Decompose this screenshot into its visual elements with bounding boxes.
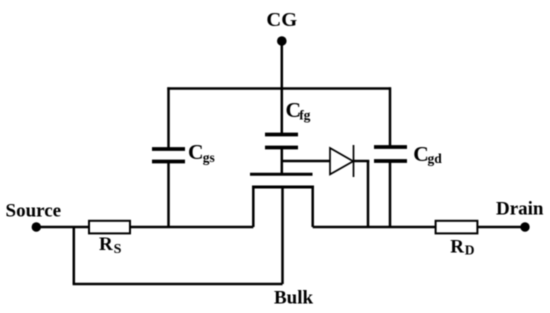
wire Cfg bottom plate to floating gate	[281, 148, 284, 175]
wire bulk drop vertical	[73, 227, 76, 284]
node CG label	[266, 9, 297, 31]
svg-text:D: D	[465, 243, 475, 258]
label Cfg	[286, 98, 311, 123]
node CG terminal dot	[277, 36, 287, 46]
svg-text:S: S	[114, 242, 122, 257]
svg-text:CG: CG	[266, 9, 297, 31]
wire diode drop vertical to drain wire	[367, 161, 370, 227]
wire transistor drain leg to resistor RD	[313, 226, 436, 229]
capacitor Cgd	[374, 147, 407, 161]
transistor M1 drain leg	[311, 186, 314, 228]
wire resistor RD to drain dot	[477, 226, 525, 229]
wire top rail (left branch to right branch)	[167, 87, 390, 90]
wire diode cathode to drop	[354, 160, 370, 163]
diode D1 (tunnel junction)	[330, 145, 354, 177]
wire Cgd bottom to drain wire	[389, 161, 392, 227]
wire CG stem (dot down to Cfg top plate)	[281, 41, 284, 136]
svg-text:C: C	[413, 142, 429, 166]
svg-text:fg: fg	[299, 108, 310, 123]
wire right branch vertical (rail down to Cgd)	[389, 87, 392, 148]
node Source label	[6, 200, 62, 221]
transistor M1 source leg	[252, 186, 255, 228]
node Drain label	[496, 198, 544, 219]
resistor RD	[436, 221, 478, 234]
label RD	[450, 236, 475, 257]
label Cgs	[188, 140, 215, 165]
capacitor Cfg	[265, 135, 298, 148]
label RS	[99, 234, 122, 257]
wire bulk horizontal	[73, 283, 283, 286]
svg-text:R: R	[450, 236, 464, 257]
svg-text:Drain: Drain	[496, 198, 544, 219]
node Source terminal dot	[32, 222, 41, 231]
node Drain terminal dot	[520, 222, 529, 231]
transistor M1 floating gate bar	[250, 173, 313, 176]
svg-text:Source: Source	[6, 200, 62, 221]
svg-text:gd: gd	[428, 151, 443, 166]
capacitor Cgs	[152, 149, 185, 162]
resistor RS	[89, 221, 130, 234]
svg-text:R: R	[99, 234, 113, 255]
wire source dot to resistor RS	[36, 226, 89, 229]
label Cgd	[413, 142, 442, 166]
svg-text:C: C	[188, 140, 204, 164]
wire resistor RS to transistor source leg	[130, 226, 253, 229]
svg-text:Bulk: Bulk	[274, 288, 314, 309]
wire left branch vertical (rail down to Cgs)	[167, 87, 170, 150]
svg-text:gs: gs	[203, 150, 215, 165]
wire floating-gate branch to diode anode	[282, 160, 330, 163]
transistor M1 channel bar	[252, 186, 314, 189]
transistor M1 bulk leg	[281, 186, 284, 285]
node Bulk label	[274, 288, 314, 309]
wire Cgs bottom to source wire	[167, 162, 170, 228]
